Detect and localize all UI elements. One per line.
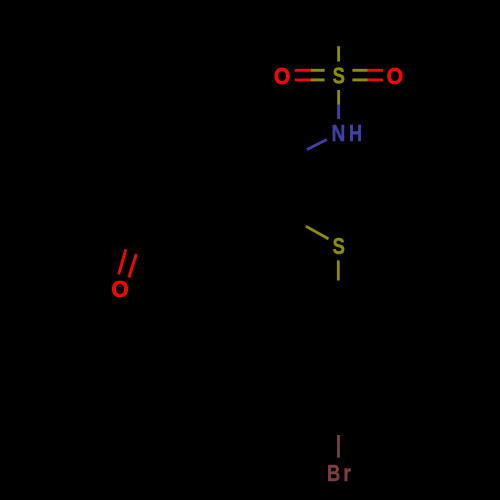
svg-text:O: O xyxy=(274,63,290,89)
svg-text:r: r xyxy=(343,461,351,487)
bond S2-C1' sulfur half xyxy=(337,260,340,280)
svg-text:S: S xyxy=(333,234,345,259)
bond C=O aldehyde oxygen half, line 2 xyxy=(129,254,137,277)
svg-text:O: O xyxy=(387,63,403,89)
bond S1-N nitrogen half xyxy=(337,105,340,119)
bond S1=O left double bond xyxy=(295,70,325,80)
svg-text:B: B xyxy=(327,461,340,486)
bond N-C1 nitrogen half xyxy=(307,140,327,150)
svg-text:N: N xyxy=(332,121,346,146)
bond S1=O right double bond xyxy=(352,70,383,80)
wire: hidden carbon skeleton of benzene rings (black on black) xyxy=(126,19,388,436)
bond C4'-Br bromine half xyxy=(337,435,340,458)
bond C2-S2 sulfur half xyxy=(306,226,329,239)
bond S1-N sulfur half xyxy=(337,90,340,105)
bond C=O aldehyde oxygen half, line 1 xyxy=(119,249,126,274)
svg-text:H: H xyxy=(349,121,362,147)
bond CH3-S1 (sulfur half) xyxy=(337,46,340,61)
svg-text:O: O xyxy=(111,276,128,302)
svg-text:S: S xyxy=(333,64,345,89)
